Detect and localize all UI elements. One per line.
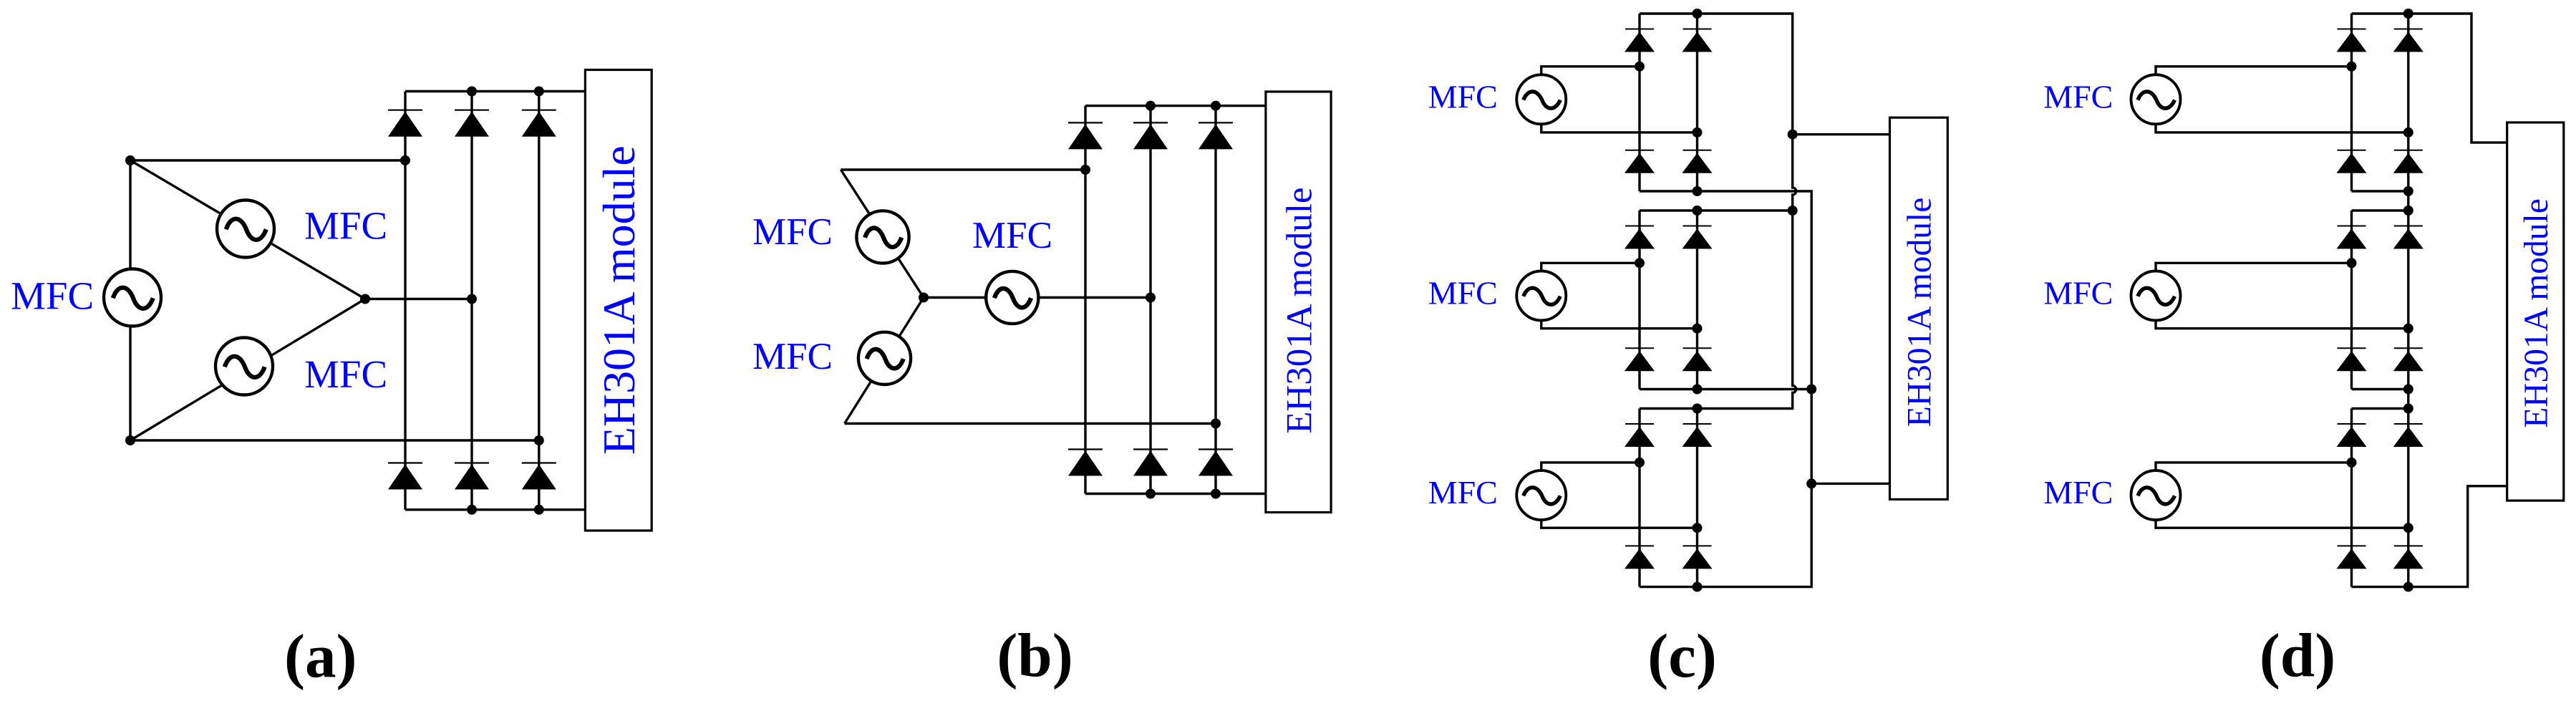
- svg-text:MFC: MFC: [752, 211, 833, 253]
- svg-text:(d): (d): [2260, 621, 2335, 690]
- svg-text:MFC: MFC: [1428, 474, 1498, 511]
- svg-text:EH301A module: EH301A module: [1279, 187, 1320, 433]
- svg-text:MFC: MFC: [304, 352, 387, 396]
- svg-text:MFC: MFC: [752, 336, 833, 377]
- svg-text:MFC: MFC: [1428, 79, 1498, 115]
- svg-text:MFC: MFC: [304, 203, 387, 247]
- svg-text:MFC: MFC: [2043, 474, 2113, 511]
- svg-text:MFC: MFC: [2043, 275, 2113, 311]
- svg-text:MFC: MFC: [11, 274, 94, 317]
- svg-text:(b): (b): [997, 621, 1072, 690]
- svg-text:EH301A module: EH301A module: [1902, 198, 1939, 427]
- svg-text:(c): (c): [1647, 621, 1717, 690]
- svg-text:(a): (a): [284, 622, 357, 691]
- svg-text:EH301A module: EH301A module: [594, 145, 644, 455]
- svg-text:MFC: MFC: [2043, 79, 2113, 115]
- svg-text:MFC: MFC: [972, 215, 1052, 256]
- svg-text:MFC: MFC: [1428, 275, 1498, 311]
- svg-text:EH301A module: EH301A module: [2518, 198, 2555, 428]
